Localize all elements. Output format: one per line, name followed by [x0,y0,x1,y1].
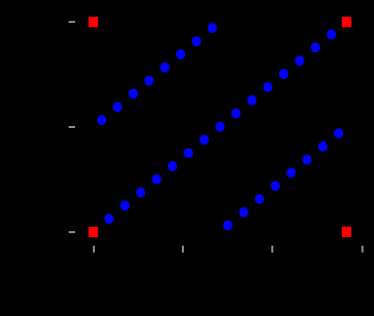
x-axis tick 4 [362,246,364,253]
blue circle series-2 point 3 [136,187,145,197]
blue circle series-2 point 9 [231,108,240,118]
blue circle series-2 point 11 [263,82,272,92]
blue circle series-2 point 13 [295,56,304,66]
blue circle series-2 point 5 [168,161,177,171]
y-axis tick 1 [69,21,76,23]
blue circle series-3 point 6 [302,155,311,165]
x-axis tick 1 [93,246,95,253]
blue circle series-1 point 5 [160,62,169,72]
blue circle series-2 point 10 [247,95,256,105]
blue circle series-2 point 12 [279,69,288,79]
blue circle series-2 point 15 [327,29,336,39]
red square marker top-left [89,17,99,27]
blue circle series-2 point 2 [120,201,129,211]
blue circle series-3 point 8 [334,128,343,138]
blue circle series-2 point 1 [104,214,113,224]
blue circle series-1 point 6 [176,49,185,59]
blue circle series-1 point 8 [208,23,217,33]
y-axis tick 2 [69,126,76,128]
red square marker bottom-right [342,227,352,237]
blue circle series-3 point 5 [286,168,295,178]
blue circle series-1 point 2 [113,102,122,112]
blue circle series-2 point 6 [184,148,193,158]
x-axis tick 3 [271,246,273,253]
blue circle series-3 point 7 [318,141,327,151]
red square marker top-right [342,17,352,27]
blue circle series-3 point 1 [223,220,232,230]
blue circle series-1 point 3 [129,89,138,99]
y-axis tick 3 [69,231,76,233]
red square marker bottom-left [89,227,99,237]
blue circle series-1 point 1 [97,115,106,125]
blue circle series-1 point 7 [192,36,201,46]
blue circle series-2 point 4 [152,174,161,184]
blue circle series-2 point 7 [200,135,209,145]
blue circle series-1 point 4 [144,76,153,86]
x-axis tick 2 [182,246,184,253]
blue circle series-3 point 4 [271,181,280,191]
blue circle series-3 point 3 [255,194,264,204]
blue circle series-2 point 14 [311,42,320,52]
blue circle series-2 point 8 [216,121,225,131]
blue circle series-3 point 2 [239,207,248,217]
